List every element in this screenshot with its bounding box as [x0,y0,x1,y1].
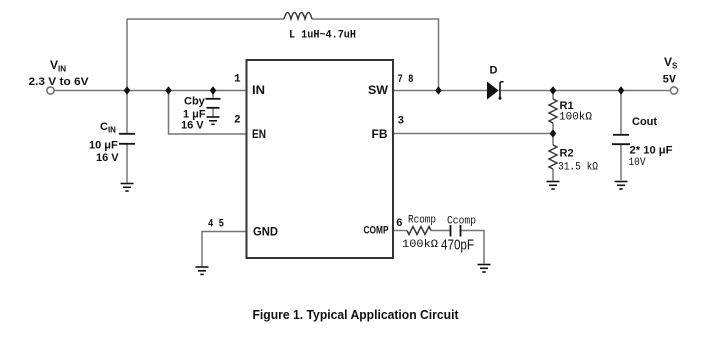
svg-text:10 μF: 10 μF [89,140,118,152]
wire GND pin to ground [202,232,247,267]
svg-text:SW: SW [368,85,388,97]
terminal VS [670,87,677,94]
wire COMP pin to Rcomp [393,230,407,232]
svg-text:FB: FB [372,129,388,141]
wire R2 to ground [552,169,554,181]
wire Rcomp to Ccomp [431,230,450,232]
wire R1 top stub [552,91,554,100]
svg-text:2* 10 μF: 2* 10 μF [630,145,673,157]
capacitor Ccomp [451,225,461,237]
svg-text:470pF: 470pF [441,237,474,254]
svg-text:L 1uH~4.7uH: L 1uH~4.7uH [289,30,356,42]
node junction dot Cout [618,86,625,95]
svg-text:2: 2 [234,115,241,127]
wire Cby stub [212,91,214,98]
svg-text:R2: R2 [560,148,574,160]
wire top loop right segment [312,19,439,91]
wire Cout branch down [620,91,622,134]
svg-text:GND: GND [253,227,278,239]
svg-text:D: D [490,65,498,77]
wire CIN to ground [126,145,128,183]
wire SW pin to diode [393,90,487,92]
svg-text:2.3 V to 6V: 2.3 V to 6V [29,76,90,88]
wire Cby to ground stub [212,108,214,117]
wire Cout to ground [620,145,622,180]
svg-text:16 V: 16 V [96,152,119,164]
ground under Ccomp [478,265,491,273]
ground under R2 [547,182,560,190]
svg-text:Ccomp: Ccomp [447,216,476,228]
node junction dot SW/inductor [435,86,442,95]
svg-text:5V: 5V [663,75,677,87]
wire EN branch [169,91,247,135]
svg-text:Figure 1. Typical Application: Figure 1. Typical Application Circuit [253,307,460,322]
capacitor Cby [206,99,221,108]
ground under Cby [207,117,220,124]
svg-text:4 5: 4 5 [208,219,224,231]
resistor Rcomp [407,227,431,235]
terminal VIN [47,87,54,94]
svg-text:31.5 kΩ: 31.5 kΩ [558,162,598,174]
wire left vertical from top loop to VIN node [126,19,128,91]
svg-text:6: 6 [396,218,403,230]
wire diode cathode to VS terminal [501,90,671,92]
wire VIN input to IN pin [54,90,247,92]
svg-text:10V: 10V [629,157,646,169]
node junction dot EN branch [165,86,172,95]
svg-text:7 8: 7 8 [398,74,414,86]
ground at GND pin [196,267,209,274]
svg-text:1: 1 [234,74,241,86]
svg-text:Cby: Cby [184,96,206,108]
svg-text:3: 3 [398,116,405,128]
svg-text:IN: IN [252,85,265,97]
node junction dot VIN/CIN [124,86,131,95]
wire top loop left segment [127,18,284,20]
node junction dot R1 top [550,86,557,95]
wire R2 top stub [552,134,554,146]
svg-text:100kΩ: 100kΩ [402,239,438,251]
diode D (Schottky) [488,82,504,100]
node junction dot FB divider [550,129,557,138]
wire Ccomp to ground [461,231,484,264]
node junction dot Cby branch [210,86,217,95]
svg-text:Rcomp: Rcomp [408,215,436,227]
svg-text:Cout: Cout [632,116,657,128]
svg-text:100kΩ: 100kΩ [559,112,592,124]
capacitor Cout [612,135,630,144]
ground under Cout [615,182,628,190]
svg-text:EN: EN [252,129,266,141]
inductor L 1uH~4.7uH [284,13,312,20]
resistor R1 [549,99,557,123]
svg-text:R1: R1 [560,100,574,112]
wire CIN branch down [126,91,128,133]
op-amp U1 IC body [247,60,394,258]
ground under CIN [121,184,134,192]
svg-text:COMP: COMP [364,225,389,237]
svg-text:16 V: 16 V [181,120,204,132]
wire FB pin to divider node [393,133,553,135]
capacitor CIN [119,134,135,144]
wire R1 bottom stub [552,123,554,134]
resistor R2 [549,145,557,169]
